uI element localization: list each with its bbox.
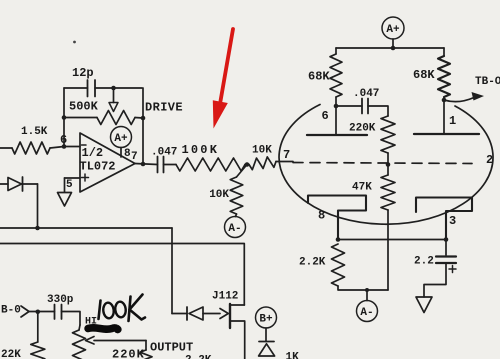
wire pin6 to op-amp bbox=[64, 146, 80, 148]
svg-text:B+: B+ bbox=[259, 314, 273, 326]
wire wiper down bbox=[145, 341, 147, 351]
node input junction bbox=[36, 310, 41, 315]
svg-text:A+: A+ bbox=[386, 24, 400, 36]
wire bus1 bbox=[0, 226, 172, 231]
svg-text:OUTPUT: OUTPUT bbox=[150, 341, 193, 355]
power A- circle tube bbox=[357, 288, 378, 322]
svg-text:47K: 47K bbox=[352, 182, 372, 194]
svg-text:5: 5 bbox=[66, 179, 73, 191]
right triode plate bbox=[414, 133, 479, 135]
right triode cathode bbox=[416, 198, 472, 240]
svg-text:10K: 10K bbox=[252, 145, 272, 157]
wire cathode rail bbox=[336, 237, 449, 242]
resistor 10K horizontal bbox=[249, 145, 293, 170]
left triode grid dashes bbox=[293, 163, 472, 164]
diode D1 left bbox=[0, 177, 38, 191]
tube envelope V1 bbox=[279, 105, 493, 225]
capacitor 2.2 electrolytic bbox=[414, 240, 456, 298]
wire cap to 100K bbox=[164, 164, 177, 166]
svg-text:2.2K: 2.2K bbox=[185, 355, 212, 359]
node wiper stem junction bbox=[111, 86, 116, 91]
svg-text:8: 8 bbox=[318, 209, 325, 223]
svg-text:2.2: 2.2 bbox=[414, 256, 434, 268]
svg-text:TB-O: TB-O bbox=[475, 76, 500, 88]
resistor 68K right bbox=[413, 48, 450, 100]
svg-text:B-0: B-0 bbox=[1, 305, 21, 317]
resistor 1.5K bbox=[0, 126, 64, 154]
wire plate right down bbox=[443, 100, 445, 134]
node grid junction bbox=[386, 162, 391, 167]
wire op-amp output bbox=[135, 164, 158, 165]
diode D2 bbox=[172, 307, 220, 320]
svg-text:100K: 100K bbox=[182, 143, 220, 157]
wire bus1 corner down bbox=[171, 228, 173, 314]
wire wiper stem bbox=[113, 88, 115, 103]
resistor 100K bbox=[176, 143, 245, 171]
resistor 10K vertical bbox=[209, 165, 247, 217]
power B+ circle bbox=[256, 307, 277, 342]
resistor 2.2K bbox=[299, 244, 388, 290]
svg-text:220K: 220K bbox=[112, 348, 145, 359]
power A- circle (left) bbox=[225, 217, 246, 238]
svg-text:330p: 330p bbox=[47, 294, 74, 306]
ink speck bbox=[73, 41, 76, 44]
potentiometer HI 100K bbox=[73, 325, 86, 359]
pot wiper arrow bbox=[86, 337, 147, 345]
node plate left bbox=[334, 104, 339, 109]
power A+ circle (op-amp pin 8) bbox=[111, 127, 132, 158]
wire bus2 bbox=[0, 244, 244, 306]
svg-text:.047: .047 bbox=[151, 147, 177, 159]
svg-text:2.2K: 2.2K bbox=[299, 257, 326, 269]
resistor 220K bottom bbox=[112, 348, 152, 359]
svg-text:68K: 68K bbox=[413, 68, 435, 82]
capacitor 330p bbox=[47, 294, 74, 319]
wire to 22K bbox=[37, 312, 39, 342]
ground below 2.2 cap bbox=[416, 297, 432, 313]
wire feedback top left bbox=[64, 87, 88, 89]
ground below op-amp bbox=[58, 193, 72, 207]
wire plate supply rail bbox=[336, 47, 444, 49]
op-amp pin 5 stub bbox=[65, 178, 81, 192]
resistor 220K tube bbox=[349, 116, 395, 165]
capacitor 12p bbox=[72, 66, 95, 97]
arrow to TB-O bbox=[444, 76, 500, 102]
svg-text:500K: 500K bbox=[69, 100, 99, 114]
svg-text:1.5K: 1.5K bbox=[21, 126, 48, 138]
svg-text:8: 8 bbox=[124, 148, 131, 160]
wire feedback box right bbox=[142, 88, 144, 164]
svg-text:A-: A- bbox=[360, 307, 373, 319]
svg-text:.047: .047 bbox=[353, 88, 379, 100]
wire plate left down bbox=[335, 106, 337, 135]
svg-text:3: 3 bbox=[449, 214, 456, 228]
transistor Q1 J112 JFET bbox=[212, 291, 245, 359]
svg-text:2: 2 bbox=[486, 153, 493, 167]
svg-text:1/2: 1/2 bbox=[82, 146, 104, 160]
svg-text:DRIVE: DRIVE bbox=[145, 101, 183, 115]
capacitor .047 bbox=[151, 147, 177, 173]
wire feedback box left bbox=[63, 88, 65, 147]
potentiometer 500K bbox=[62, 100, 146, 125]
resistor 68K left bbox=[308, 48, 342, 106]
handwritten 100K bbox=[99, 295, 146, 322]
wire diode down to bus1 bbox=[37, 184, 39, 228]
scribble mark bbox=[88, 328, 118, 330]
svg-text:1: 1 bbox=[449, 114, 456, 128]
input B-0 bbox=[1, 305, 55, 318]
resistor 22K bbox=[1, 342, 45, 359]
svg-text:TL072: TL072 bbox=[80, 160, 116, 174]
capacitor .047 tube bbox=[336, 88, 388, 116]
wire feedback top right bbox=[95, 87, 142, 89]
svg-text:22K: 22K bbox=[1, 349, 21, 359]
svg-text:A+: A+ bbox=[114, 133, 128, 145]
svg-text:10K: 10K bbox=[209, 189, 229, 201]
node pin6 junction bbox=[60, 133, 67, 149]
svg-text:12p: 12p bbox=[72, 66, 94, 80]
svg-text:220K: 220K bbox=[349, 123, 376, 135]
left triode plate bbox=[307, 134, 367, 136]
svg-text:A-: A- bbox=[228, 223, 241, 235]
potentiometer 500K wiper arrow bbox=[109, 103, 118, 112]
wire cap to pot bbox=[62, 312, 81, 326]
op-amp U1 1/2 TL072 bbox=[80, 133, 138, 192]
diode D3 below B+ bbox=[259, 342, 275, 357]
left triode cathode bbox=[308, 196, 366, 240]
node output junction bbox=[141, 162, 146, 167]
svg-text:7: 7 bbox=[131, 151, 138, 163]
node 100K/10K junction bbox=[245, 162, 250, 167]
power A+ circle top bbox=[382, 17, 404, 50]
node plate right bbox=[442, 98, 447, 103]
svg-text:68K: 68K bbox=[308, 70, 330, 84]
resistor 47K bbox=[352, 165, 395, 291]
red annotation arrow bbox=[213, 29, 233, 129]
svg-text:7: 7 bbox=[283, 148, 290, 162]
svg-text:1K: 1K bbox=[286, 352, 300, 359]
svg-text:J112: J112 bbox=[212, 291, 238, 303]
svg-text:6: 6 bbox=[322, 109, 329, 123]
